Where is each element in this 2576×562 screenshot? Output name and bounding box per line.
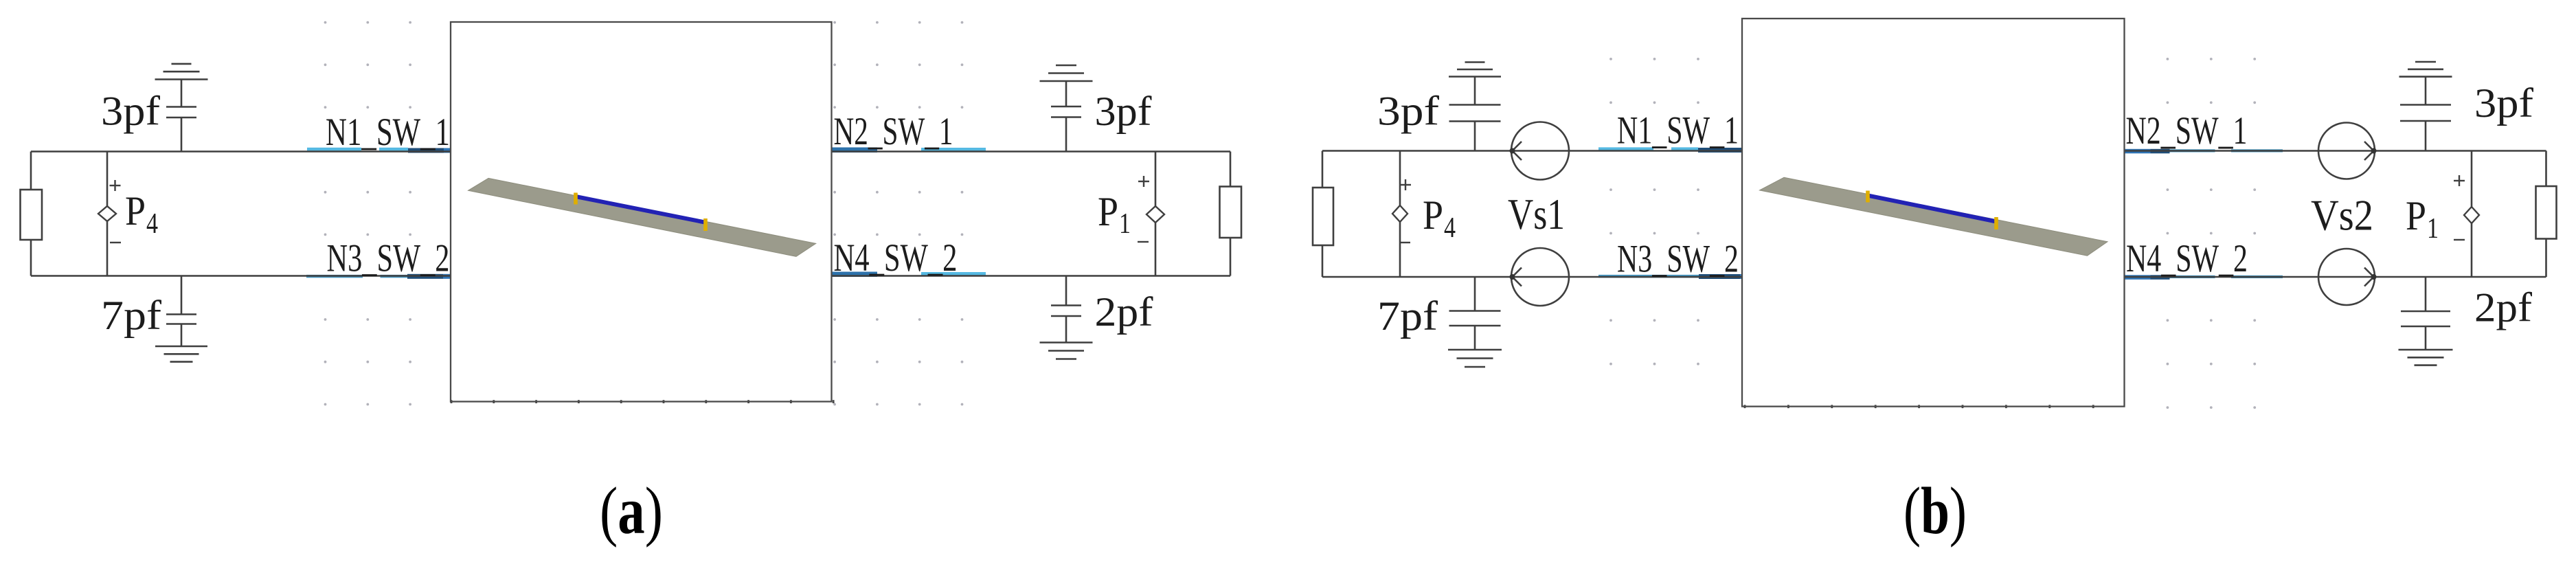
svg-text:2pf: 2pf	[2474, 285, 2532, 330]
svg-text:(a): (a)	[600, 474, 663, 548]
svg-text:N3_SW_2: N3_SW_2	[1617, 238, 1739, 281]
svg-text:3pf: 3pf	[1377, 89, 1439, 134]
svg-text:4: 4	[146, 208, 158, 240]
svg-text:7pf: 7pf	[101, 293, 161, 338]
svg-text:N2_SW_1: N2_SW_1	[834, 110, 953, 153]
svg-text:4: 4	[1444, 212, 1456, 244]
svg-text:N1_SW_1: N1_SW_1	[326, 111, 450, 154]
svg-text:Vs1: Vs1	[1508, 190, 1565, 238]
svg-text:N4_SW_2: N4_SW_2	[834, 236, 958, 280]
svg-text:1: 1	[2427, 213, 2439, 245]
svg-text:P: P	[1423, 192, 1443, 238]
svg-text:N1_SW_1: N1_SW_1	[1617, 109, 1739, 153]
svg-text:(b): (b)	[1903, 474, 1967, 548]
svg-text:Vs2: Vs2	[2311, 191, 2373, 240]
svg-text:P: P	[2406, 193, 2426, 238]
svg-text:P: P	[1098, 189, 1118, 234]
svg-text:2pf: 2pf	[1095, 289, 1153, 335]
svg-text:3pf: 3pf	[101, 89, 160, 134]
svg-text:7pf: 7pf	[1377, 293, 1438, 339]
svg-text:P: P	[125, 188, 146, 234]
svg-text:3pf: 3pf	[2474, 80, 2533, 126]
svg-text:N2_SW_1: N2_SW_1	[2126, 109, 2248, 153]
svg-text:N3_SW_2: N3_SW_2	[327, 237, 450, 280]
svg-text:3pf: 3pf	[1095, 89, 1152, 134]
svg-text:1: 1	[1119, 208, 1131, 240]
svg-text:N4_SW_2: N4_SW_2	[2126, 237, 2248, 280]
